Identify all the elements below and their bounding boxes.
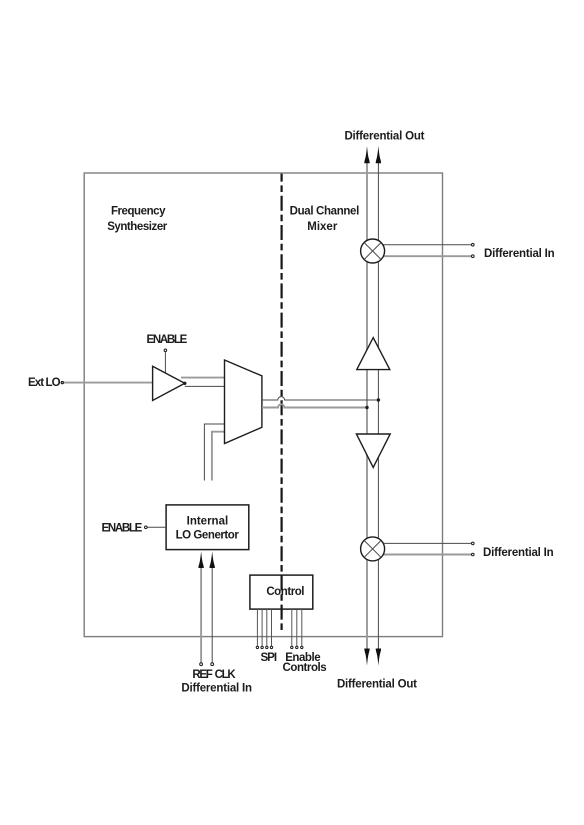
svg-text:Differential Out: Differential Out <box>337 679 417 691</box>
arrow: Differential Out bottom-left <box>364 649 369 666</box>
svg-text:Differential In: Differential In <box>181 683 252 695</box>
wire: SPI line 3 <box>266 609 268 646</box>
wire: enable control line 1 <box>291 609 293 646</box>
mixer bottom (circle with X) <box>361 537 385 561</box>
node: junction on gray vertical <box>365 406 368 409</box>
node: Ext LO terminal <box>61 382 63 384</box>
node: SPI terminal 4 <box>270 646 272 648</box>
internal LO generator box <box>166 505 249 550</box>
control box <box>250 575 313 609</box>
svg-text:ENABLE: ENABLE <box>147 334 188 346</box>
svg-text:Synthesizer: Synthesizer <box>107 221 168 233</box>
svg-text:SPI: SPI <box>261 652 277 664</box>
wire: enable control line 3 <box>301 609 303 646</box>
wire: buffer output thin <box>185 385 225 387</box>
svg-text:Ext LO: Ext LO <box>28 377 61 389</box>
svg-text:LO Genertor: LO Genertor <box>176 530 240 542</box>
wire: top mixer RF out thin <box>372 244 472 246</box>
node: enable control terminal 3 <box>301 646 303 648</box>
wire: LO chain vertical thin (right of pair) <box>377 163 379 649</box>
node: top Differential In terminal 2 <box>472 255 475 258</box>
wire: REF CLK gray <box>200 568 202 663</box>
wire: SPI line 2 <box>261 609 263 646</box>
amplifier down (triangle) <box>356 434 390 467</box>
mux (trapezoid) <box>225 360 262 444</box>
node: bottom Differential In terminal 2 <box>472 553 475 556</box>
svg-text:REF CLK: REF CLK <box>192 669 236 681</box>
arrow: REF CLK left up <box>198 551 203 568</box>
node: SPI terminal 2 <box>261 646 263 648</box>
mixer top (circle with X) <box>361 239 385 263</box>
wire: bottom mixer RF out gray <box>372 554 472 556</box>
wire: SPI line 1 <box>256 609 258 646</box>
wire: top mixer RF out gray <box>372 255 472 257</box>
wire: mux stub thin <box>204 424 224 481</box>
svg-text:Dual Channel: Dual Channel <box>290 205 359 217</box>
arrow: REF CLK right up <box>210 551 215 568</box>
wire: mux output thin with hop <box>262 397 378 400</box>
svg-text:Internal: Internal <box>187 516 229 528</box>
partition dash-dot line <box>281 174 283 633</box>
arrow: Differential Out top-right <box>376 146 381 163</box>
wire: enable control line 2 <box>296 609 298 646</box>
svg-text:Mixer: Mixer <box>307 221 338 233</box>
wire: buffer ENABLE stem <box>164 352 166 374</box>
node: top Differential In terminal 1 <box>472 243 475 246</box>
node: enable control terminal 1 <box>291 646 293 648</box>
node: buffer ENABLE terminal <box>164 349 167 352</box>
svg-text:Differential Out: Differential Out <box>344 130 424 142</box>
svg-text:Differential In: Differential In <box>484 248 555 260</box>
svg-text:Frequency: Frequency <box>111 205 166 217</box>
wire: SPI line 4 <box>271 609 273 646</box>
node: REF CLK terminal 2 <box>211 663 214 666</box>
svg-text:Differential In: Differential In <box>483 547 554 559</box>
wire: LO generator ENABLE lead <box>147 526 166 528</box>
node: bottom Differential In terminal 1 <box>472 542 475 545</box>
node: LO generator ENABLE terminal <box>145 526 148 529</box>
wire: LO chain vertical gray (left of pair) <box>366 163 368 649</box>
wire: buffer output gray <box>181 377 225 379</box>
arrow: Differential Out bottom-right <box>376 649 381 666</box>
arrow: Differential Out top-left <box>364 146 369 163</box>
wire: mux output gray with hop <box>262 404 367 407</box>
node: buffer output junction <box>183 382 186 385</box>
node: SPI terminal 3 <box>266 646 268 648</box>
node: enable control terminal 2 <box>296 646 298 648</box>
outer box <box>84 173 442 637</box>
svg-text:ENABLE: ENABLE <box>101 523 142 535</box>
buffer amplifier (triangle) <box>153 366 185 400</box>
node: SPI terminal 1 <box>256 646 258 648</box>
wire: mux stub gray <box>212 432 225 481</box>
amplifier up (triangle) <box>357 338 390 370</box>
svg-text:Controls: Controls <box>283 662 327 674</box>
wire: REF CLK thin <box>211 568 213 663</box>
wire: bottom mixer RF out thin <box>372 542 472 544</box>
svg-text:Control: Control <box>266 586 304 598</box>
node: REF CLK terminal 1 <box>200 663 203 666</box>
node: junction on thin vertical <box>377 398 380 401</box>
wire: Ext LO input gray <box>62 382 152 384</box>
